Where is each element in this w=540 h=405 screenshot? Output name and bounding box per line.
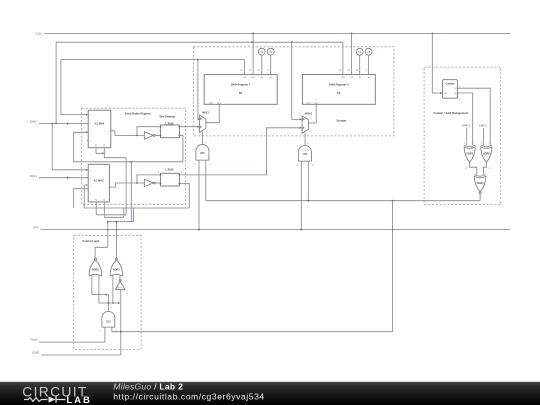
svg-text:Test Element: Test Element (159, 115, 175, 119)
svg-text:Flush: Flush (31, 338, 38, 342)
junction on CLK at x=351.2 (351, 33, 353, 35)
wire U11 right leg to result bus (307, 161, 309, 201)
svg-text:3: 3 (481, 143, 482, 145)
svg-text:Q0: Q0 (454, 93, 456, 95)
svg-text:3: 3 (111, 308, 112, 310)
junction on CLK at x=431.9 (431, 33, 433, 35)
test element U6 inverter (144, 132, 153, 139)
svg-text:MUX 1: MUX 1 (202, 112, 210, 115)
wire Flush y=341.7 (39, 341, 105, 343)
junction AND out on h302.6 (108, 302, 110, 304)
dashed box Storage (193, 47, 394, 136)
wire branch up to latch U9 top pin (137, 175, 161, 183)
svg-text:1: 1 (100, 331, 101, 333)
junction NOR2 left leg at h302.6 (112, 302, 114, 304)
svg-text:7: 7 (108, 131, 109, 133)
arrow into mux M2 data1 (300, 118, 303, 120)
mux U3 4:1 MUX box (88, 110, 111, 147)
svg-text:6: 6 (307, 143, 308, 145)
wire mux1 select nest: S0 jog (96, 148, 103, 154)
svg-text:CLR: CLR (243, 77, 247, 79)
junction riser B on nest bus (116, 221, 118, 223)
wire select A jog into NOR1 (95, 247, 108, 258)
svg-text:S1: S1 (103, 199, 105, 201)
svg-text:2: 2 (489, 168, 490, 170)
wire mux2 pin3 from U-loop (84, 185, 88, 208)
svg-text:3: 3 (90, 193, 91, 195)
voltage source V1 (SR1 S0) (267, 48, 274, 55)
inverter U8 bubble (153, 182, 155, 184)
svg-text:R1: R1 (239, 91, 243, 95)
latch U9 pin nubs (160, 174, 161, 175)
junction y59.2 x197.5 (197, 59, 199, 61)
junction test1 input x136.5 (136, 135, 138, 137)
svg-text:DIN 0: DIN 0 (30, 120, 37, 124)
wire NOR1 left input leg (91, 275, 93, 295)
arrow h302.6 into LOAD line (118, 302, 121, 304)
arrow DIN0 (67, 122, 70, 124)
voltage source V4 (SR2 S1) (356, 48, 363, 55)
svg-text:4: 4 (181, 172, 182, 174)
svg-text:6: 6 (205, 142, 206, 144)
junction DIN0 x51.8 (51, 123, 53, 125)
shift register U1 box (204, 75, 277, 105)
wire SR2 CLK drop x=351.2 (351, 33, 353, 74)
XNOR gate XOR3 (474, 176, 486, 192)
svg-text:t1: t1 (210, 163, 211, 166)
svg-text:t2: t2 (194, 163, 195, 166)
wire counter Q1 to XOR x2 right input (457, 88, 490, 145)
XOR2 output jog into XOR3 right input (483, 162, 486, 174)
svg-text:4: 4 (464, 143, 465, 145)
svg-text:2: 2 (90, 185, 91, 187)
XOR3 output bubble (479, 192, 481, 194)
svg-text:L 9162: L 9162 (165, 168, 174, 172)
wire U-loop y=207.6 (84, 207, 189, 209)
svg-text:Clear: Clear (209, 101, 214, 104)
svg-text:U10: U10 (200, 152, 205, 155)
svg-text:4:1 MUX: 4:1 MUX (95, 123, 105, 126)
svg-text:Shift Register 1: Shift Register 1 (231, 83, 251, 87)
wire feedback1 y=161.4 (74, 161, 183, 163)
wire U10 left leg to STR bus (198, 160, 200, 230)
svg-text:Storage: Storage (336, 119, 346, 123)
shift register U2 box (302, 75, 375, 105)
svg-text:CLR: CLR (341, 77, 345, 79)
mux U3 pin ticks left (87, 115, 89, 141)
svg-text:6: 6 (466, 168, 467, 170)
svg-text:V1: V1 (269, 50, 273, 54)
wire compare result drop x392.2 (392, 201, 394, 332)
test element U8 inverter (144, 179, 153, 186)
svg-text:0: 0 (90, 170, 91, 172)
wire nest h y=221.3 (108, 221, 134, 223)
wire V2 stem (261, 55, 263, 74)
svg-text:XOR3: XOR3 (477, 182, 484, 185)
wire h y=302.6 (99, 302, 120, 304)
NOR1 bubble (94, 258, 96, 260)
wire nest vertical x130.9 (130, 162, 132, 222)
arrow into mux1 pin1 (86, 114, 89, 116)
svg-text:2: 2 (459, 99, 460, 101)
svg-text:1: 1 (90, 124, 91, 126)
logo resistor zigzag (24, 398, 48, 402)
wire mux2 pin4 stub (74, 188, 89, 208)
junction STR x300.9 (300, 229, 302, 231)
NOT1 inverter triangle (115, 281, 125, 290)
wire U10 right leg to result bus (205, 160, 207, 201)
svg-text:S1: S1 (103, 145, 105, 147)
svg-text:2: 2 (181, 124, 182, 126)
svg-text:SHR 1: SHR 1 (462, 124, 470, 128)
wire mux1 output jog to test element input (111, 131, 144, 136)
svg-text:Clear: Clear (306, 101, 311, 104)
svg-text:http://circuitlab.com/cg3er6yv: http://circuitlab.com/cg3er6yvaj534 (113, 391, 265, 401)
junction riser A on STR (107, 229, 109, 231)
wire NOR1 right input leg (98, 275, 100, 303)
footer bar (0, 382, 540, 405)
svg-text:3: 3 (158, 172, 159, 174)
dashed box Store Buffer Register (82, 108, 186, 204)
wire mux1 pin3 feedback: left and down to y161.4 (74, 132, 89, 162)
wire SHR2 drop (483, 128, 485, 145)
wire SR2 input from mux2 out (308, 104, 316, 123)
wire inverter U6 out to latch U7 bottom pin (155, 134, 160, 136)
svg-text:2: 2 (116, 331, 117, 333)
svg-text:V3: V3 (367, 50, 371, 54)
wire AND U13 output riser (107, 295, 109, 312)
logo diode (49, 396, 56, 402)
wire latch U9 output right then up to mux M2 (179, 128, 302, 175)
wire U11 left leg to STR bus (300, 161, 302, 230)
junction LOAD riser at bottom bus (120, 331, 122, 333)
svg-text:0: 0 (90, 115, 91, 117)
wire V3 stem (368, 55, 370, 74)
mux U4 pin ticks left (87, 170, 89, 189)
arrow into mux M1 data1 (198, 118, 201, 120)
arrow into mux1 pin3 (86, 131, 89, 133)
svg-text:LOAD: LOAD (32, 351, 39, 355)
NOR gate NOR2 (110, 260, 123, 276)
wire STR bus y=229.2 (41, 229, 511, 231)
svg-text:7: 7 (107, 187, 108, 189)
svg-text:Counter / Addr Management: Counter / Addr Management (433, 111, 468, 115)
wire branch up to latch U7 top pin (137, 127, 161, 136)
svg-text:MilesGuo / Lab 2: MilesGuo / Lab 2 (113, 381, 183, 391)
wire latch U7 stub down to feedback1 (179, 135, 183, 161)
wire counter CLK drop x=431.9 (432, 33, 441, 93)
junction DIN0 x55.7 (55, 123, 57, 125)
svg-text:1: 1 (489, 143, 490, 145)
junction feedback1 x130.9 (130, 161, 132, 163)
svg-text:S0: S0 (95, 145, 97, 147)
AND gate U13 (102, 311, 115, 327)
voltage source V2 (SR1 S1) (258, 48, 265, 55)
junction riser A on nest bus (107, 221, 109, 223)
svg-text:5: 5 (472, 143, 473, 145)
XOR gate XOR2 (481, 147, 492, 163)
wire LOAD y=354.6 (41, 354, 121, 356)
svg-text:XOR1: XOR1 (466, 153, 473, 156)
wire NOR2 left input leg (112, 275, 114, 303)
voltage source V3 (SR2 S0) (365, 48, 372, 55)
svg-text:LAB: LAB (67, 395, 92, 405)
wire mux M2 data1 from y41.8 riser (292, 42, 302, 119)
svg-text:NOR2: NOR2 (113, 269, 120, 272)
junction riser B on STR (116, 229, 118, 231)
wire nest vertical x125.7 (125, 158, 127, 215)
svg-text:3: 3 (459, 86, 460, 88)
wire control select line A x107.4 (107, 222, 109, 248)
wire XOR3 output down to result bus (479, 194, 481, 201)
wire riser x=55.7 to y41.8 bus (55, 42, 57, 123)
arrow h294.2 (106, 294, 109, 296)
wire NOR2 right input leg to NOT1 (119, 275, 121, 279)
junction on CLK at x=252.7 (252, 33, 254, 35)
svg-text:Q1: Q1 (454, 88, 456, 90)
svg-text:DIN 1: DIN 1 (30, 174, 37, 178)
svg-text:NOR1: NOR1 (92, 269, 99, 272)
junction y41.8 x291.3 (291, 41, 293, 43)
wire U13 left leg to Flush (104, 327, 106, 342)
wire inverter U8 out to latch U9 bottom pin (155, 182, 160, 184)
svg-text:Control Logic: Control Logic (82, 239, 99, 243)
svg-text:Shift Register 2: Shift Register 2 (329, 83, 349, 87)
svg-text:2: 2 (90, 132, 91, 134)
inverter U6 bubble (153, 134, 155, 136)
svg-text:1: 1 (158, 124, 159, 126)
svg-text:Input: Input (314, 101, 319, 104)
wire bottom bus y=331.3 (112, 331, 393, 333)
mux U4 4:1 MUX box (88, 164, 109, 202)
svg-text:3: 3 (90, 140, 91, 142)
counter U12 box (443, 80, 458, 99)
wire LOAD riser x=120.4 to NOT1 input (120, 290, 122, 355)
arrow y41.8 x252 (252, 41, 255, 43)
svg-text:U11: U11 (303, 153, 308, 156)
wire result bus y=200.3 (206, 200, 480, 202)
wire latch U9 stub down to U-loop (179, 183, 189, 208)
svg-text:C1: C1 (337, 91, 341, 95)
wire mux1 pin1 from y59.2 bus (61, 60, 89, 115)
wire DIN1 y=177.3 to mux2 pin2 (39, 177, 88, 179)
wire mux M1 select to AND U10 (202, 132, 204, 145)
wire nest h y=216.9 (104, 216, 124, 218)
wire mux2 S0 drop (95, 202, 97, 215)
wire h y=294.2 NOR1 left to AND out riser (92, 294, 108, 296)
svg-text:S1: S1 (261, 77, 263, 79)
svg-text:S1: S1 (359, 77, 361, 79)
svg-text:S0: S0 (270, 77, 272, 79)
AND gate U10 (196, 145, 209, 161)
junction STR x392.2 (392, 229, 394, 231)
wire U13 right leg to bottom bus (111, 327, 113, 332)
svg-text:4:1 MUX: 4:1 MUX (94, 180, 104, 183)
svg-text:2: 2 (116, 279, 117, 281)
wire SHR1 drop (466, 128, 468, 145)
dashed box Control Logic (74, 235, 141, 349)
wire SR1 CLR drop x=244.1 (244, 60, 246, 75)
wire SR1 input from mux1 out (206, 104, 219, 122)
mux M2 2:1 trapezoid (302, 116, 308, 133)
wire nest v x123.4 (123, 208, 125, 217)
svg-text:CLK: CLK (36, 32, 42, 36)
junction result bus x392.2 (392, 200, 394, 202)
svg-text:SHR 2: SHR 2 (479, 124, 487, 128)
wire DIN0 branch down x=51.8 to mux2 pin1 (52, 124, 88, 170)
wire DIN0 y=123.1 (39, 123, 88, 125)
latch U7 pin nubs (160, 126, 161, 127)
dashed box Counter / Addr Management (424, 67, 501, 205)
wire mux2 S1 drop (103, 202, 105, 217)
wire nest h y=214.4 (96, 214, 126, 216)
wire counter Q0 to XOR x1 right input (457, 93, 472, 145)
svg-text:MUX 2: MUX 2 (305, 113, 313, 116)
arrow nest S0 (102, 152, 105, 154)
NOT1 inverter bubble (119, 279, 121, 281)
svg-text:1: 1 (127, 293, 128, 295)
svg-text:V2: V2 (260, 50, 264, 54)
XOR1 output jog into XOR3 left input (470, 162, 477, 174)
svg-text:t2: t2 (296, 164, 297, 167)
mux M1 2:1 trapezoid (200, 115, 206, 132)
wire nest v x133.2 (133, 208, 135, 222)
wire CLK bus y=33 (44, 32, 510, 34)
AND gate U11 (298, 146, 311, 162)
latch U7 box (160, 125, 179, 138)
svg-text:Counter: Counter (445, 82, 454, 85)
svg-text:Input: Input (217, 101, 222, 104)
wire control select line B x116.1 (116, 222, 118, 258)
arrow into mux2 pin1 (86, 169, 89, 171)
wire mux M2 select to AND U11 (304, 132, 306, 145)
wire mux1 select nest: S1 down and right (104, 148, 126, 158)
wire bus y=59.2 (61, 59, 245, 61)
wire latch U7 output to mux M1 (179, 126, 199, 128)
NOR gate NOR1 (89, 260, 102, 276)
arrow into mux M1 data2 (197, 126, 200, 128)
wire V4 stem (359, 55, 361, 74)
svg-text:STR: STR (33, 225, 38, 229)
arrow into counter CLK pin (440, 92, 443, 94)
svg-text:Store Buffer Register: Store Buffer Register (125, 111, 151, 115)
junction STR x198.6 (198, 229, 200, 231)
svg-text:S0: S0 (368, 77, 370, 79)
junction test2 input x136.5 (136, 182, 138, 184)
svg-text:t1: t1 (312, 164, 313, 167)
arrow DIN1 (67, 177, 70, 179)
NOR2 bubble (115, 258, 117, 260)
svg-text:U13: U13 (106, 320, 111, 323)
latch U9 box (160, 173, 179, 186)
svg-text:NOT1: NOT1 (117, 287, 122, 289)
wire bus y=41.8 (56, 41, 343, 43)
XOR gate XOR1 (464, 147, 475, 163)
wire mux2 output jog to test element 2 input (109, 183, 144, 187)
wire V1 stem (270, 55, 272, 74)
junction result bus x307.9 (307, 200, 309, 202)
wire SR1 CLK drop x=252.7 (252, 33, 254, 74)
wire mux M1 data1 from y59.2 bus (198, 60, 200, 120)
svg-text:V4: V4 (358, 50, 362, 54)
svg-text:XOR2: XOR2 (483, 153, 490, 156)
svg-text:S0: S0 (95, 199, 97, 201)
arrow into mux M2 data2 (300, 127, 303, 129)
wire SR2 CLR drop x=342.5 (342, 42, 344, 74)
svg-text:1: 1 (90, 178, 91, 180)
